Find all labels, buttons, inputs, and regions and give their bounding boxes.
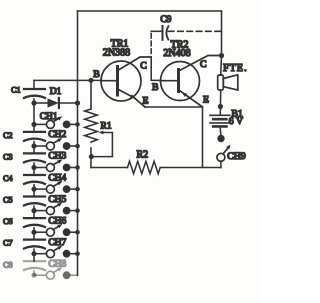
- svg-text:C3: C3: [3, 153, 12, 162]
- svg-text:CH2: CH2: [48, 130, 66, 140]
- switch CH8: [34, 267, 78, 279]
- wire TR1 base rail: [34, 79, 102, 81]
- wire bottom rail left: [91, 167, 128, 169]
- svg-text:CH6: CH6: [48, 216, 66, 226]
- wire bottom rail right: [160, 167, 221, 169]
- node C-rail junction CH8: [31, 273, 36, 278]
- svg-text:C5: C5: [3, 196, 12, 205]
- svg-text:CH5: CH5: [48, 195, 66, 205]
- svg-text:CH8: CH8: [48, 259, 66, 269]
- node D1 cathode junction: [75, 100, 80, 105]
- switch CH1: [34, 116, 78, 128]
- wire bank right rail: [77, 11, 79, 275]
- switch CH2: [34, 138, 78, 150]
- svg-text:CH4: CH4: [48, 173, 66, 183]
- svg-text:CH7: CH7: [48, 238, 66, 248]
- node contact-rail junction CH7: [75, 251, 80, 256]
- transistor Q1 TR1 2N388: [101, 57, 151, 107]
- transistor Q2 TR2 2N408: [161, 56, 222, 108]
- wire emitter rail: [145, 107, 203, 168]
- node base-R1 junction: [89, 78, 94, 83]
- switch CH4: [34, 181, 78, 193]
- wire left rail to D1: [34, 102, 48, 104]
- node C-rail junction CH2: [31, 143, 36, 148]
- capacitor C3: [24, 153, 45, 162]
- node contact-rail junction CH6: [75, 230, 80, 235]
- svg-text:C7: C7: [3, 239, 12, 248]
- svg-text:C8: C8: [3, 260, 12, 269]
- wire top rail: [78, 10, 222, 12]
- node C-rail junction CH4: [31, 187, 36, 192]
- svg-text:E: E: [143, 95, 149, 106]
- node contact-rail junction CH1: [75, 122, 80, 127]
- switch CH5: [34, 203, 78, 215]
- node speaker-battery junction: [218, 104, 223, 109]
- node C-rail junction CH7: [31, 251, 36, 256]
- wire CH9 to bottom rail: [220, 161, 222, 168]
- node C-rail junction CH5: [31, 208, 36, 213]
- svg-text:2N408: 2N408: [163, 48, 190, 59]
- capacitor C4: [24, 175, 45, 184]
- svg-text:2N388: 2N388: [103, 47, 130, 58]
- capacitor C8: [24, 261, 45, 270]
- svg-text:CH3: CH3: [48, 152, 66, 162]
- node C-rail junction CH1: [31, 122, 36, 127]
- capacitor C7: [24, 240, 45, 249]
- battery B1 6V: [210, 115, 230, 126]
- capacitor C2: [24, 132, 45, 141]
- capacitor C5: [24, 197, 45, 206]
- node contact-rail junction CH2: [75, 144, 80, 149]
- svg-text:E: E: [203, 95, 209, 106]
- svg-text:C4: C4: [3, 174, 12, 183]
- node contact-rail junction CH4: [75, 187, 80, 192]
- diode D1: [48, 98, 59, 108]
- capacitor C6: [24, 218, 45, 227]
- wire speaker to battery: [219, 90, 221, 114]
- wire D1 to right rail: [60, 102, 78, 104]
- svg-text:CH1: CH1: [40, 112, 58, 122]
- wire left rail top: [33, 80, 35, 88]
- speaker FTE: [218, 75, 238, 90]
- wire speaker top: [220, 56, 223, 76]
- svg-text:C2: C2: [3, 131, 12, 140]
- node contact-rail junction CH3: [75, 165, 80, 170]
- resistor R2: [128, 161, 161, 173]
- R1 wiper arm: [91, 133, 112, 157]
- switch CH7: [34, 246, 78, 258]
- wire battery to CH9: [219, 128, 222, 135]
- svg-text:C9: C9: [160, 15, 171, 25]
- svg-text:B: B: [152, 82, 159, 93]
- capacitor C9: [151, 26, 221, 55]
- svg-text:C: C: [200, 59, 207, 70]
- node TR2 collector / speaker junction: [219, 53, 224, 58]
- node contact-rail junction CH5: [75, 208, 80, 213]
- switch CH3: [34, 160, 78, 172]
- node D1 anode junction: [31, 100, 36, 105]
- wire TR1 collector to TR2 base: [151, 57, 160, 80]
- svg-text:D1: D1: [50, 87, 62, 97]
- svg-text:R2: R2: [137, 149, 149, 160]
- svg-text:B: B: [93, 69, 100, 80]
- svg-text:C6: C6: [3, 217, 12, 226]
- wire right rail: [221, 11, 223, 56]
- wire left rail segments: [33, 99, 35, 103]
- node C-rail junction CH6: [31, 230, 36, 235]
- svg-text:CH9: CH9: [227, 151, 246, 162]
- svg-text:R1: R1: [101, 122, 112, 132]
- resistor R1 (rheostat): [85, 80, 113, 167]
- svg-text:C: C: [140, 60, 147, 71]
- capacitor C1: [24, 89, 45, 98]
- svg-text:C1: C1: [11, 86, 20, 95]
- switch CH9: [217, 135, 231, 162]
- svg-text:6 V: 6 V: [229, 116, 243, 127]
- switch CH6: [34, 224, 78, 236]
- node C-rail junction CH3: [31, 165, 36, 170]
